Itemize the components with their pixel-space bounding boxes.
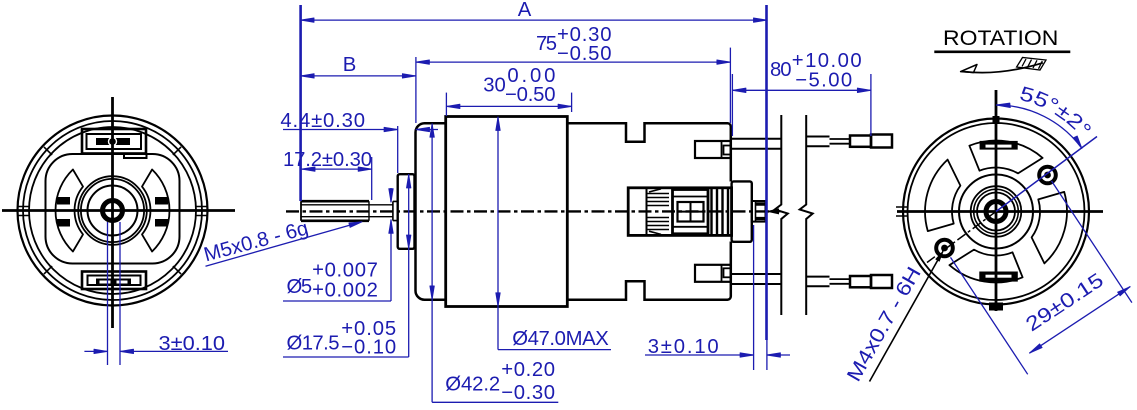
upper lead wire — [731, 139, 782, 149]
svg-text:80: 80 — [770, 59, 792, 81]
inner circle — [908, 123, 1085, 300]
ext 75 right — [729, 48, 731, 123]
rotation hatched flag — [1017, 58, 1046, 71]
dim line 75 — [416, 61, 731, 63]
svg-text:+0.007: +0.007 — [312, 260, 378, 282]
rear bearing boss — [732, 181, 752, 241]
shaft tip edge — [300, 201, 302, 221]
29 dim ext lower — [951, 257, 1028, 374]
svg-text:−0.50: −0.50 — [505, 84, 556, 106]
dia42.2 underline — [432, 401, 558, 403]
bottom vent slot — [949, 250, 1022, 283]
svg-text:Ø47.0MAX: Ø47.0MAX — [512, 328, 609, 350]
dim line 30 — [446, 105, 571, 107]
winding comb — [648, 189, 670, 235]
top vent slot — [969, 141, 1042, 174]
end cap top profile — [567, 123, 731, 181]
motor body — [446, 117, 568, 307]
left slot brush marks — [57, 197, 70, 205]
svg-text:Ø5: Ø5 — [287, 276, 313, 298]
arc arrowhead bottom — [1073, 136, 1082, 148]
arrowhead — [94, 349, 108, 353]
rotation underline — [934, 50, 1070, 53]
bottom terminal tab inner — [88, 276, 141, 286]
top slot black bar — [980, 141, 1018, 150]
left vent slot — [925, 160, 960, 232]
front mounting plate — [416, 123, 446, 299]
angular dim arc — [996, 105, 1082, 148]
outer circle — [903, 119, 1089, 305]
motor can inner circle — [23, 121, 202, 300]
main centerline dash-dot — [286, 210, 780, 212]
dim 17.2 — [371, 157, 373, 200]
bearing boss circles — [78, 176, 147, 245]
ext 75 left / B right — [415, 57, 417, 123]
ext 3 left (mid) — [753, 225, 755, 370]
svg-text:−0.30: −0.30 — [501, 382, 555, 404]
upper terminal — [695, 141, 731, 158]
dia47 underline — [498, 349, 611, 351]
svg-text:17.2±0.30: 17.2±0.30 — [283, 149, 372, 171]
lead break line 2 — [800, 115, 813, 315]
lower mounting hole M4 — [936, 240, 953, 257]
shaft crest lines — [301, 201, 369, 221]
svg-text:−0.10: −0.10 — [341, 336, 396, 358]
ext 80 left — [731, 74, 733, 136]
svg-text:−5.00: −5.00 — [795, 69, 852, 91]
top terminal tab outer — [82, 129, 146, 154]
dia47 dim vertical — [497, 117, 499, 350]
bottom tab white windows — [100, 281, 111, 284]
svg-text:4.4±0.30: 4.4±0.30 — [280, 110, 365, 132]
lower terminal — [695, 265, 731, 282]
dia42.2 dim vertical — [431, 124, 433, 403]
dia17.5 underline — [283, 356, 409, 358]
rim tick marks — [44, 147, 181, 274]
svg-text:29±0.15: 29±0.15 — [1022, 269, 1108, 336]
upper lead after break + crimp terminal — [806, 137, 829, 147]
ext 3 right (mid) — [766, 300, 768, 370]
dim 4.4 leader — [283, 129, 438, 131]
dimension line — [84, 350, 228, 352]
center rings — [959, 175, 1033, 249]
top tab black bar — [96, 138, 130, 145]
svg-text:3±0.10: 3±0.10 — [159, 333, 226, 355]
top edge tick — [993, 116, 1000, 124]
left rim notch — [17, 207, 30, 216]
29 dim ext upper — [1052, 181, 1132, 303]
svg-text:+0.002: +0.002 — [312, 279, 378, 301]
extension line — [119, 222, 121, 365]
right slot brush marks — [155, 197, 168, 205]
front bearing boss — [398, 174, 415, 249]
svg-text:3±0.10: 3±0.10 — [648, 336, 719, 358]
M4 leader line (black) — [870, 254, 942, 382]
dim line 3 (mid) — [645, 354, 790, 356]
29 dim line — [1030, 287, 1131, 354]
svg-text:A: A — [518, 0, 532, 21]
ext 4.4 left — [397, 126, 399, 173]
svg-text:B: B — [343, 54, 357, 76]
hole centerline dash — [927, 212, 996, 263]
top tab circle detail — [109, 138, 117, 146]
top terminal tab inner — [87, 134, 142, 149]
ext A right (thick) — [765, 5, 768, 340]
dia5 dim vertical — [390, 188, 392, 301]
thread runout — [368, 201, 370, 221]
right rim notch — [195, 207, 208, 216]
svg-text:−0.50: −0.50 — [557, 43, 612, 65]
svg-text:30: 30 — [483, 74, 506, 96]
rear internal assembly outer box — [628, 188, 731, 236]
svg-text:M5x0.8 - 6g: M5x0.8 - 6g — [202, 217, 311, 266]
dim line 80 — [732, 89, 871, 91]
shaft hub dark ring — [103, 201, 123, 221]
svg-text:ROTATION: ROTATION — [943, 27, 1058, 50]
svg-text:Ø17.5: Ø17.5 — [287, 333, 340, 355]
left vent slot — [55, 170, 83, 252]
text 55 deg (rotated) — [1019, 100, 1086, 142]
dia17.5 dim vertical — [408, 174, 410, 357]
dia5 underline — [283, 300, 391, 302]
rotation curved arrow — [963, 63, 1043, 73]
centerline arrow at stub — [766, 210, 782, 212]
end cap rim circle — [29, 127, 196, 294]
thread root lines — [301, 205, 393, 217]
shaft full section near boss — [393, 201, 398, 220]
extension line — [107, 222, 109, 365]
horizontal centerline — [2, 209, 235, 212]
right vent slot — [142, 170, 170, 252]
right vent slot — [1032, 192, 1067, 264]
bottom terminal tab outer — [82, 272, 146, 290]
vertical centerline — [995, 90, 998, 311]
top tab step — [124, 154, 147, 159]
commutator block — [673, 190, 709, 234]
bottom edge tick — [989, 303, 1003, 311]
bottom tab black bar — [96, 279, 131, 286]
ext 30 left — [445, 93, 447, 116]
bottom slot black bar — [979, 272, 1018, 282]
upper mounting hole M4 — [1039, 167, 1056, 184]
svg-text:Ø42.2: Ø42.2 — [445, 373, 500, 395]
M5 thread leader — [206, 225, 351, 266]
ext 30 right — [571, 93, 573, 112]
dim line B — [301, 75, 416, 77]
winding divider — [646, 188, 648, 236]
end cap bottom profile — [567, 242, 731, 300]
arc arrowhead top — [996, 103, 1010, 107]
lead break line 1 — [775, 115, 788, 315]
lower lead wire — [731, 274, 782, 284]
left view dimension 3±0.10 — [84, 222, 228, 365]
dim line A — [301, 19, 767, 21]
svg-text:M4x0.7 - 6H: M4x0.7 - 6H — [843, 263, 926, 385]
motor can outer circle — [18, 116, 208, 306]
rear shaft stub — [752, 201, 766, 222]
shaft hub dark ring — [986, 202, 1006, 222]
horizontal centerline — [897, 210, 1103, 213]
lower lead after break + crimp terminal — [806, 277, 829, 287]
svg-text:+0.20: +0.20 — [501, 359, 555, 381]
29 arrowheads — [1030, 344, 1043, 353]
55 deg terminal side line — [996, 137, 1097, 212]
left rim notch — [896, 207, 908, 216]
svg-text:75: 75 — [536, 33, 557, 55]
brush verticals — [712, 188, 729, 236]
ext shaft tip (thick) — [299, 5, 302, 201]
end cap face rounded square — [46, 154, 180, 264]
ext 80 right — [870, 74, 872, 136]
arrowhead — [120, 349, 134, 353]
svg-text:55°±2°: 55°±2° — [1017, 83, 1095, 142]
vertical centerline — [111, 97, 114, 328]
